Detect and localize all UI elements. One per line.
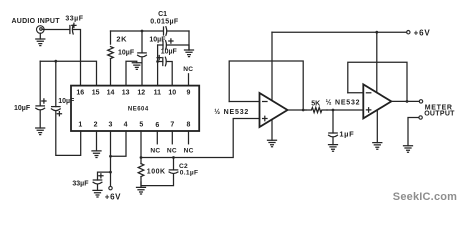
terminal +6V bottom [109, 186, 112, 189]
wire U2A feedback loop [229, 61, 303, 110]
wire R3 to U2B [327, 109, 363, 111]
wire top node line [111, 30, 190, 32]
svg-text:10µF: 10µF [14, 105, 31, 112]
capacitor C7 10uF pin11 to pin10 [157, 56, 172, 86]
node K junction U2B output [406, 100, 409, 103]
wire pin 2 to ground [96, 131, 98, 151]
svg-text:NC: NC [183, 66, 193, 73]
wire to C8 [98, 172, 111, 180]
pin 7 stub [171, 131, 173, 144]
svg-text:10: 10 [168, 90, 176, 97]
terminal +6V top [407, 31, 410, 34]
node C junction pin11 [156, 60, 159, 63]
ground at U2B [373, 143, 382, 150]
ground at C1 [185, 50, 194, 57]
svg-text:5: 5 [139, 122, 143, 129]
pin numbers top row [76, 90, 190, 97]
svg-text:1: 1 [78, 122, 82, 129]
node F junction pin5 [140, 156, 143, 159]
ground at C8 [93, 190, 102, 197]
svg-text:AUDIO INPUT: AUDIO INPUT [12, 18, 61, 25]
svg-text:OUTPUT: OUTPUT [424, 111, 455, 118]
svg-text:12: 12 [137, 90, 145, 97]
svg-text:2: 2 [94, 122, 98, 129]
svg-text:10µF: 10µF [58, 98, 75, 105]
ground at lower terminal [404, 146, 413, 153]
svg-text:11: 11 [154, 90, 162, 97]
svg-text:100K: 100K [147, 168, 166, 175]
svg-text:½ NE532: ½ NE532 [214, 108, 249, 116]
svg-text:+6V: +6V [105, 192, 121, 201]
svg-text:14: 14 [107, 90, 115, 97]
pin numbers bottom row [78, 122, 190, 130]
capacitor C8 33uF decoupling [93, 174, 103, 191]
wire C1 right to ground [188, 31, 190, 50]
connector J1 audio input jack [37, 26, 45, 34]
svg-text:2K: 2K [116, 34, 127, 43]
svg-text:3: 3 [109, 122, 113, 129]
node G junction C2 [172, 156, 175, 159]
wire U2A inverting input [229, 101, 259, 103]
svg-text:1µF: 1µF [339, 130, 354, 139]
ground at C9 [329, 145, 338, 152]
IC U1 NE604 body [71, 86, 199, 131]
wire U2B output [391, 100, 419, 102]
svg-text:0.015µF: 0.015µF [150, 18, 179, 25]
op-amp U2B minus sign [366, 92, 370, 94]
wire U2B feedback loop [348, 62, 407, 101]
svg-text:SeekIC.com: SeekIC.com [393, 191, 457, 203]
wire U2A output [288, 109, 307, 111]
wire U2B V+ to rail [376, 32, 378, 92]
pin 8 stub [188, 131, 190, 144]
svg-text:½ NE532: ½ NE532 [326, 98, 361, 106]
wire U2B inverting input [348, 92, 364, 94]
svg-text:0.1µF: 0.1µF [180, 170, 199, 177]
ground at J1 [36, 33, 45, 45]
wire pin5 bus to opamp [141, 119, 260, 158]
wire decoupling bus y61 to pin 15 [40, 61, 96, 85]
ground at pin 13 [132, 63, 141, 70]
resistor R3 5K [306, 108, 327, 113]
capacitor C-in 33uF polarized [70, 23, 76, 34]
ground at C3 [36, 128, 45, 135]
capacitor C3 10uF [36, 61, 46, 128]
op-amp U2B plus sign [366, 108, 370, 112]
svg-text:10µF: 10µF [149, 36, 166, 43]
pin 6 stub [156, 131, 158, 144]
svg-text:33µF: 33µF [65, 15, 83, 22]
svg-text:+6V: +6V [414, 29, 431, 38]
wire U2A V- to ground [271, 120, 273, 140]
op-amp U2B triangle [363, 84, 391, 118]
wire U2A V+ to rail [271, 32, 273, 99]
ground at pin 2 [92, 151, 101, 158]
svg-text:7: 7 [170, 122, 174, 129]
capacitor C2 0.1uF [141, 158, 178, 186]
svg-text:NE604: NE604 [128, 106, 149, 112]
svg-text:33µF: 33µF [72, 180, 89, 187]
wire U2B V- to ground [376, 110, 378, 143]
op-amp U2A triangle [260, 93, 288, 127]
capacitor C9 1uF [329, 110, 338, 145]
svg-text:NC: NC [167, 147, 177, 154]
node I junction U2A output [302, 109, 305, 112]
op-amp U2A minus sign [263, 101, 267, 103]
wire C-in to pin 16 [73, 30, 81, 86]
node A junction on bus [54, 60, 57, 63]
svg-text:6: 6 [155, 122, 159, 129]
pin 9 stub [188, 74, 190, 86]
capacitor C6 10uF pin11 to ground [158, 39, 189, 50]
svg-text:4: 4 [124, 122, 128, 129]
svg-text:10µF: 10µF [118, 49, 135, 56]
terminal METER OUTPUT upper [419, 100, 422, 103]
wire pin 13 to ground jog [126, 61, 137, 85]
svg-text:NC: NC [184, 147, 194, 154]
svg-text:10µF: 10µF [161, 48, 178, 55]
wire J1 to C-in [44, 29, 70, 31]
wire lower terminal to ground [408, 118, 419, 146]
resistor R2 100K [138, 158, 144, 188]
capacitor C1 0.015uF [164, 27, 167, 36]
op-amp U2A plus sign [263, 116, 267, 120]
terminal METER OUTPUT lower [419, 116, 422, 119]
node J junction 1uF [332, 109, 335, 112]
wire pin 5 down [140, 131, 142, 158]
ground at U2A [268, 140, 277, 147]
resistor R1 2K [108, 31, 114, 86]
wire pin 4 jog to pin 3 [111, 131, 127, 156]
svg-text:C1: C1 [158, 11, 167, 18]
+6V power rail [272, 31, 407, 33]
svg-text:13: 13 [122, 90, 130, 97]
wire C4 to pin 1 [56, 111, 81, 155]
svg-text:NC: NC [150, 147, 160, 154]
capacitor C4 10uF [51, 61, 61, 116]
svg-text:16: 16 [76, 90, 84, 97]
node H junction op2 V+ [375, 31, 378, 34]
svg-text:15: 15 [92, 90, 100, 97]
ground at R2 [137, 187, 146, 194]
svg-text:9: 9 [187, 90, 191, 97]
node E junction pin3/C8 [109, 171, 112, 174]
svg-text:8: 8 [187, 122, 191, 129]
node D junction pin3/pin4 [109, 155, 112, 158]
wire pin 3 to +6V [110, 131, 112, 186]
capacitor C5 10uF (pin 12) [138, 31, 147, 86]
wire pin 11 [157, 45, 159, 86]
node B junction top line [141, 30, 144, 33]
